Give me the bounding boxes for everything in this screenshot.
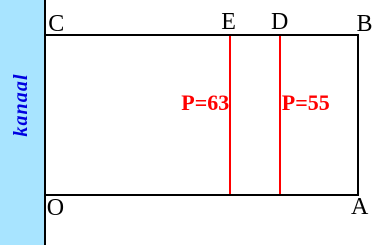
kanaal band [0, 0, 44, 245]
wire: top side CB [44, 34, 359, 36]
red line P=55 (through D) [279, 36, 281, 194]
red line P=63 (through E) [229, 36, 231, 194]
wire: right side AB [357, 34, 359, 196]
wire: bottom side OA [44, 194, 359, 196]
label P=63 [181, 92, 229, 114]
node B [357, 12, 372, 36]
node O [47, 196, 64, 220]
node A [351, 195, 368, 219]
wire: left bank line (through O and C) [44, 0, 46, 245]
kanaal label [8, 50, 34, 160]
node E [221, 10, 236, 34]
node D [271, 10, 288, 34]
label P=55 [282, 92, 330, 114]
node C [48, 12, 64, 36]
